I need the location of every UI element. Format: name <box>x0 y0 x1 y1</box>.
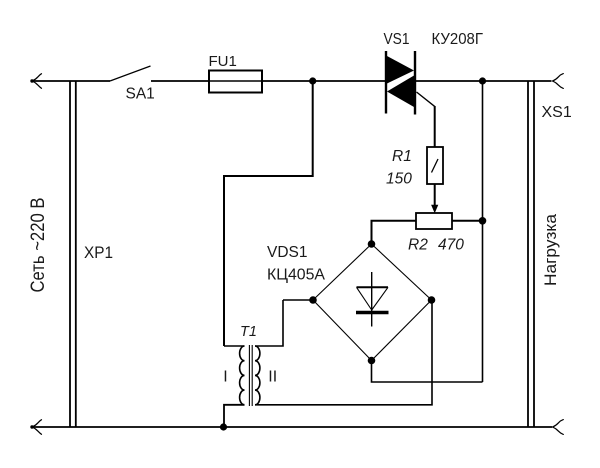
svg-text:150: 150 <box>386 171 412 188</box>
bridge rectifier VDS1 <box>313 244 432 361</box>
wire: fuse FU1 to triac VS1 anode <box>262 80 386 82</box>
svg-text:FU1: FU1 <box>209 53 237 70</box>
svg-text:VDS1: VDS1 <box>267 244 308 261</box>
winding II of T1 <box>255 346 260 405</box>
svg-text:VS1: VS1 <box>384 31 410 48</box>
svg-text:КЦ405А: КЦ405А <box>267 267 326 284</box>
wire: R2 right to node H <box>452 220 483 222</box>
wire: winding I bottom to bottom mains <box>224 405 245 427</box>
triac VS1 <box>386 51 415 115</box>
node F: bridge AC right corner dot <box>428 296 436 304</box>
winding I of T1 <box>240 346 245 405</box>
wire: R1 to R2 wiper with arrow <box>434 184 436 207</box>
node D: bridge DC+ top corner dot <box>368 240 376 248</box>
wire: bridge DC- down and right to node B vertical <box>372 361 483 383</box>
node E: bridge AC left corner dot <box>309 296 317 304</box>
wire: winding I top stub <box>224 345 245 347</box>
svg-text:Нагрузка: Нагрузка <box>542 213 560 286</box>
wire: winding II top stub to bridge left node <box>283 299 313 301</box>
resistor R1 body <box>427 147 443 184</box>
svg-text:470: 470 <box>438 237 464 254</box>
wiper arrowhead of R2 <box>431 205 438 213</box>
socket XS1 (double line) <box>527 81 529 427</box>
wire: diamond edge bottom-left <box>313 300 372 361</box>
wire: bridge DC+ up to potentiometer R2 left <box>372 221 417 244</box>
plug XP1 (double line) <box>69 81 71 427</box>
svg-text:КУ208Г: КУ208Г <box>432 31 484 48</box>
wire: triac VS1 gate lead <box>417 92 435 147</box>
node B: junction dot on top wire to control circuit <box>479 77 486 84</box>
node XS1 bottom: socket contact arrow <box>553 420 564 435</box>
svg-text:R1: R1 <box>392 148 412 165</box>
wire: from switch fixed contact to fuse FU1 <box>151 80 209 82</box>
wire: vertical from node B down to bottom control rail <box>482 81 484 382</box>
wire: diamond edge top-right <box>372 244 432 300</box>
svg-text:T1: T1 <box>240 324 257 340</box>
svg-text:XP1: XP1 <box>84 243 113 262</box>
svg-text:R2: R2 <box>408 237 428 254</box>
wire: through fuse FU1 <box>209 80 262 82</box>
wire: bottom mains wire <box>32 426 552 428</box>
fuse FU1 body <box>209 71 262 93</box>
svg-text:SA1: SA1 <box>126 86 155 103</box>
transformer T1 <box>224 300 432 427</box>
core of T1 <box>248 345 250 406</box>
node H: junction dot R2 right on vertical rail <box>479 217 487 225</box>
wire: from node A down and left to transformer T1 winding I <box>224 81 313 346</box>
wire: winding II bottom to bridge AC right <box>255 300 432 405</box>
wire: diamond edge top-left <box>313 244 372 300</box>
svg-text:I: I <box>223 368 227 385</box>
wire: winding II top to bridge AC left <box>255 300 283 346</box>
svg-text:XS1: XS1 <box>542 104 572 121</box>
node L1: top mains wire left arrow <box>32 74 42 89</box>
wire: triac VS1 cathode to socket XS1 <box>415 80 552 82</box>
svg-text:II: II <box>268 368 277 385</box>
node G: bridge DC- bottom corner dot <box>368 357 376 365</box>
node L2: bottom mains wire left arrow <box>32 420 42 435</box>
node A: junction dot on top wire feeding transformer primary <box>309 77 316 84</box>
diode of VDS1 <box>356 272 389 327</box>
svg-text:Сеть ~220 В: Сеть ~220 В <box>28 198 49 293</box>
switch SA1 blade <box>110 66 151 81</box>
wire: diamond edge bottom-right <box>372 300 432 361</box>
node C: junction dot bottom wire to transformer primary <box>220 423 227 430</box>
node XS1 top: socket contact arrow <box>553 74 564 89</box>
wire: top mains wire from arrow to switch SA1 <box>32 80 110 82</box>
slash inside R1 <box>432 159 439 173</box>
potentiometer R2 body <box>416 213 452 229</box>
